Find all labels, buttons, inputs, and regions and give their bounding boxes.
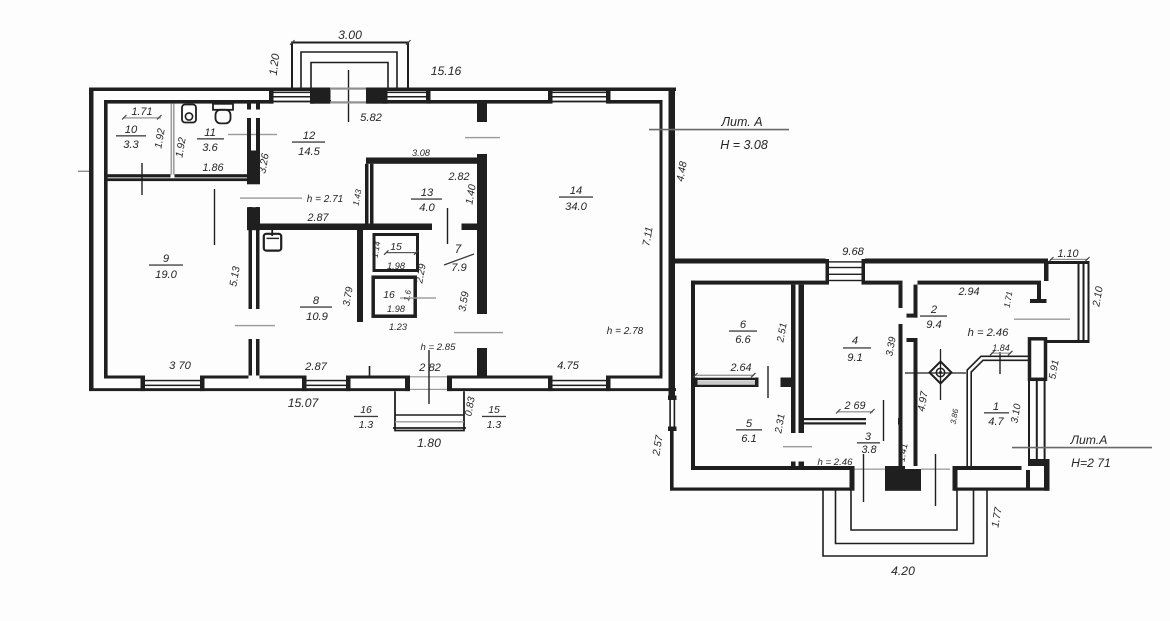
grey leader door 11-12 <box>228 134 277 135</box>
svg-text:9.68: 9.68 <box>842 246 865 258</box>
svg-text:15: 15 <box>488 405 500 416</box>
svg-text:2.82: 2.82 <box>447 171 469 183</box>
svg-text:9: 9 <box>163 253 169 265</box>
window right (room1) lines <box>1028 381 1030 459</box>
porch door dim lines <box>863 454 865 502</box>
wall below rooms 10/11 (upper line) <box>104 174 171 177</box>
porch rim inner <box>851 491 957 531</box>
bay top line <box>1047 261 1090 264</box>
svg-text:5: 5 <box>746 418 753 430</box>
vent unit room 8 <box>264 234 281 251</box>
svg-text:14.5: 14.5 <box>298 146 321 158</box>
svg-text:3.3: 3.3 <box>123 139 139 151</box>
door bottom D caps <box>405 376 410 392</box>
svg-text:3.00: 3.00 <box>338 28 362 42</box>
dim line door 6-5 <box>767 366 769 398</box>
dim line to door D <box>428 350 430 404</box>
svg-text:6: 6 <box>740 319 747 331</box>
window right bottom cap <box>1028 459 1047 466</box>
grey tick door 5-3 <box>783 446 812 447</box>
svg-text:1.3: 1.3 <box>487 420 502 431</box>
svg-text:16: 16 <box>383 290 395 301</box>
dim line crossing at x142 <box>141 163 143 195</box>
dim line door 4-3 <box>883 400 885 441</box>
svg-text:1: 1 <box>993 401 999 413</box>
svg-text:Н=2 71: Н=2 71 <box>1071 456 1111 470</box>
svg-text:4.0: 4.0 <box>419 202 435 214</box>
svg-text:2.87: 2.87 <box>304 361 328 373</box>
window top W2 <box>383 88 388 104</box>
svg-text:19.0: 19.0 <box>155 269 178 281</box>
svg-text:1.80: 1.80 <box>417 436 441 450</box>
window bottom C (4.75) <box>548 376 553 392</box>
window top (9.68) <box>826 259 830 285</box>
stove leader vertical <box>940 349 942 400</box>
svg-text:4: 4 <box>852 335 858 347</box>
wall rooms 4|3 (2.69 partition) <box>804 418 866 420</box>
wall: right bldg left outer (below main bldg) <box>670 391 675 396</box>
svg-text:1.86: 1.86 <box>202 162 223 174</box>
window inner sill lines <box>273 101 311 103</box>
svg-text:11: 11 <box>204 127 216 139</box>
wall rooms 10,11 | 12 (double with openings) <box>247 100 251 110</box>
wall room 8 | closets <box>357 230 363 322</box>
svg-text:2: 2 <box>930 304 938 316</box>
room 13 left wall (double) <box>365 164 369 224</box>
stoop steps <box>395 414 464 416</box>
wall below room 12 (rooms 15/16/7 top) <box>247 224 432 231</box>
porch door 2 cap <box>953 466 958 491</box>
dim line in room 9 at x214.5 <box>214 189 216 245</box>
door jamb stubs room2 <box>907 314 918 318</box>
leader from closet16 <box>400 297 436 298</box>
svg-text:h = 2.71: h = 2.71 <box>307 194 343 205</box>
svg-text:2.87: 2.87 <box>306 212 329 224</box>
svg-text:13: 13 <box>421 187 434 199</box>
chimney block right wall <box>1030 339 1046 380</box>
porch door 1 cap <box>850 466 855 491</box>
stove leader horizontal <box>905 372 966 374</box>
grey dim line 2.64 <box>694 375 754 376</box>
wall: main bottom inner face <box>104 376 141 379</box>
porch inner rim <box>311 63 388 89</box>
svg-text:16: 16 <box>360 405 372 416</box>
wall: main top inner face (room box tops) <box>104 100 273 104</box>
svg-text:7.9: 7.9 <box>451 262 467 274</box>
svg-text:10.9: 10.9 <box>306 311 328 323</box>
pier P1 under porch <box>311 88 331 104</box>
svg-text:8: 8 <box>313 295 320 307</box>
svg-text:15.16: 15.16 <box>431 64 462 78</box>
svg-text:6.1: 6.1 <box>741 433 757 445</box>
svg-text:3.6: 3.6 <box>202 142 218 154</box>
porch rim outer <box>823 491 987 557</box>
window top W3 <box>548 88 553 104</box>
window left lines <box>669 400 671 428</box>
porch outer rim (dim line 3.00) <box>292 43 408 89</box>
svg-text:5.82: 5.82 <box>360 112 383 124</box>
svg-text:1.23: 1.23 <box>389 322 408 332</box>
svg-text:14: 14 <box>570 185 582 197</box>
room2 corner notch <box>1037 282 1041 302</box>
dim line through room1 top wall <box>999 352 1001 374</box>
leader Lit.A (top) <box>649 129 789 131</box>
svg-text:2 69: 2 69 <box>843 400 865 412</box>
wall rooms 6|5 with glazed strip (2.64) <box>694 378 698 388</box>
svg-text:9.1: 9.1 <box>847 352 863 364</box>
grey tick door 9-8 <box>235 325 275 326</box>
closet 15 box <box>374 235 418 271</box>
wall rooms 9 | 8 (double with door) <box>249 207 253 309</box>
stoop outline <box>395 391 464 430</box>
pier between porch doors <box>885 469 921 491</box>
leader Lit.A (bottom right) <box>1012 447 1152 449</box>
door D thresholds <box>410 376 447 377</box>
svg-text:Лит.А: Лит.А <box>1070 433 1108 447</box>
porch door centerline <box>348 70 350 122</box>
svg-text:6.6: 6.6 <box>735 334 751 346</box>
grey leader through bay <box>1014 319 1070 320</box>
wall rooms 12/13/7 | 14 <box>477 100 487 122</box>
window left (2.57) caps <box>668 396 677 401</box>
bay left edge top <box>1044 261 1049 281</box>
grey leader door 9-12 <box>240 197 302 198</box>
svg-text:9.4: 9.4 <box>926 319 942 331</box>
grey tick door 7-14 <box>454 332 503 333</box>
bottom right corner inner step <box>1026 470 1030 491</box>
grey tick door 12-14 <box>465 137 500 138</box>
svg-text:1.98: 1.98 <box>387 304 406 314</box>
wall: right bldg inner left (boxes) <box>691 281 695 470</box>
svg-text:4.75: 4.75 <box>557 360 580 372</box>
svg-text:1.84: 1.84 <box>992 343 1010 353</box>
door dim line x447.5 <box>447 208 449 244</box>
window bottom A (3.70) <box>141 376 146 392</box>
svg-text:15: 15 <box>390 242 402 253</box>
porch thresholds <box>855 469 886 470</box>
stove symbol <box>930 362 952 384</box>
svg-text:h = 2.85: h = 2.85 <box>421 342 457 353</box>
svg-text:10: 10 <box>125 124 138 136</box>
wall: right bldg inner top (boxes) <box>691 281 826 285</box>
wall: main left inner face <box>104 100 108 379</box>
svg-text:h = 2.78: h = 2.78 <box>607 326 644 337</box>
svg-text:h = 2.46: h = 2.46 <box>818 457 854 468</box>
dim tick below closet16 <box>369 366 371 376</box>
wall room4 right (corridor left line) <box>899 285 903 308</box>
leader under 15 <box>386 252 417 253</box>
svg-text:3.08: 3.08 <box>412 148 431 158</box>
window top W1 (porch left) <box>269 88 274 104</box>
svg-text:1.71: 1.71 <box>131 106 152 118</box>
bay bottom line <box>1047 340 1090 343</box>
svg-text:1.3: 1.3 <box>359 420 374 431</box>
tick at left wall <box>78 171 93 172</box>
wall: main bottom outer face <box>89 388 410 391</box>
svg-text:15.07: 15.07 <box>288 396 320 410</box>
svg-text:4.7: 4.7 <box>988 416 1004 428</box>
svg-text:3.8: 3.8 <box>861 444 876 456</box>
svg-text:2 82: 2 82 <box>418 362 442 374</box>
svg-text:34.0: 34.0 <box>565 201 588 213</box>
room 13 top wall <box>366 158 487 164</box>
svg-text:4.20: 4.20 <box>891 564 915 578</box>
partition rooms 10|11 (grey) <box>171 104 173 175</box>
wall top of room 9 (lower line) <box>104 178 249 181</box>
wall: main left outer face <box>89 88 94 392</box>
window bottom B (2.87) <box>302 376 307 392</box>
wall: main right inner face <box>660 100 663 379</box>
svg-text:1.98: 1.98 <box>387 261 406 271</box>
svg-text:3: 3 <box>865 431 871 443</box>
wall: main top outer face <box>89 88 330 92</box>
sink room 11 <box>182 105 196 123</box>
toilet room 11 <box>213 104 233 110</box>
svg-text:12: 12 <box>303 130 316 142</box>
wall: right bldg right outer (corner) <box>1044 459 1050 491</box>
svg-text:Н = 3.08: Н = 3.08 <box>720 138 768 152</box>
porch rim middle <box>836 491 974 544</box>
bay right window triple lines <box>1078 261 1080 343</box>
svg-text:3 70: 3 70 <box>169 360 192 372</box>
stove flue wall room 1 (thin double with chamfer) <box>967 356 1028 466</box>
svg-text:2.94: 2.94 <box>957 286 979 298</box>
pier P2 under porch <box>366 88 388 104</box>
wall room2 left (corridor right line) <box>914 285 918 318</box>
porch middle rim <box>301 52 397 88</box>
svg-text:h = 2.46: h = 2.46 <box>968 327 1010 339</box>
svg-text:Лит. А: Лит. А <box>720 115 762 129</box>
closet 16 box <box>373 277 415 316</box>
front door gap thresholds <box>331 88 367 89</box>
wall: main right outer face <box>669 88 676 396</box>
svg-text:7: 7 <box>455 243 462 256</box>
svg-text:1.10: 1.10 <box>1057 248 1078 260</box>
wall: right bldg bottom inner <box>695 466 850 470</box>
wall rooms 6|4 (double) <box>791 285 796 433</box>
wall: right bldg top outer <box>670 259 826 264</box>
dim slash ticks <box>122 40 1090 413</box>
wall: right bldg bottom outer <box>670 488 852 491</box>
svg-text:2.64: 2.64 <box>729 362 751 374</box>
